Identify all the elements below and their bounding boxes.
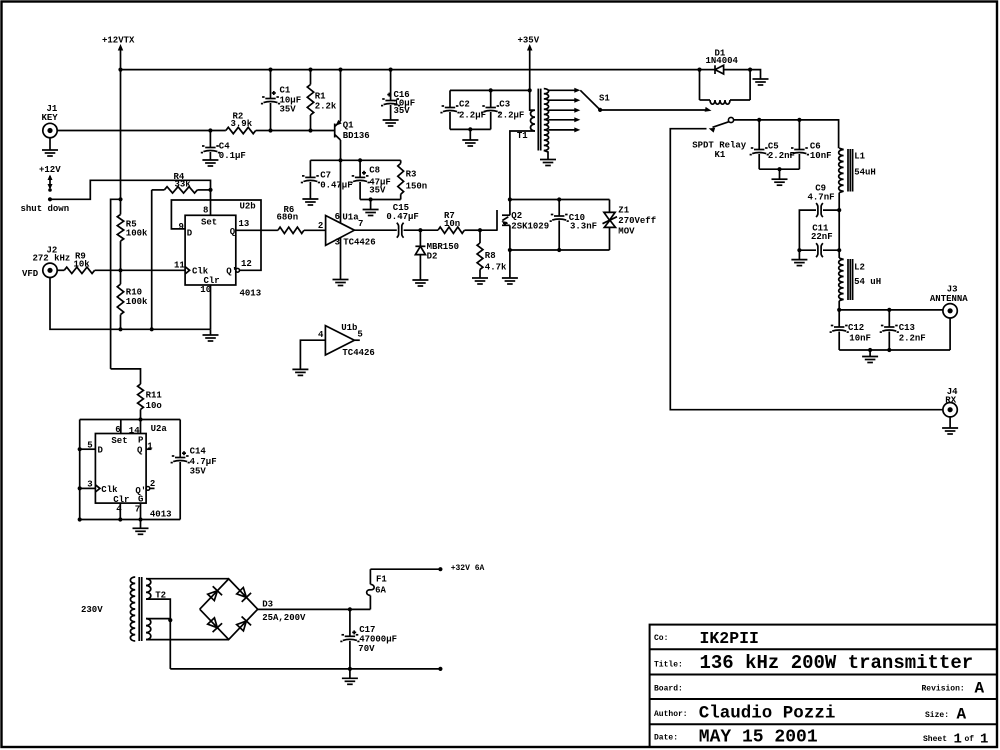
wire U2a pin14 stub — [140, 420, 142, 434]
svg-text:U2b: U2b — [240, 202, 256, 212]
svg-text:Clk: Clk — [101, 485, 118, 495]
fuse F1 6A — [367, 569, 388, 609]
capacitor C3 2.2uF — [481, 90, 524, 129]
ground U2a — [133, 528, 149, 534]
connector J1 KEY — [42, 104, 59, 138]
ground Q2 — [502, 278, 518, 284]
wire U2a left D Clk loop — [78, 420, 96, 520]
capacitor C9 4.7nF — [799, 183, 839, 250]
ground C4 — [202, 160, 218, 166]
ground C2/C3 — [462, 140, 478, 146]
capacitor C17 47000uF 70V — [340, 609, 397, 669]
ground C5/C6 — [772, 179, 788, 185]
svg-text:P: P — [138, 435, 144, 445]
svg-text:D: D — [187, 228, 193, 238]
wire drain node to C10 Z1 — [510, 197, 610, 201]
svg-text:3: 3 — [335, 238, 340, 248]
svg-text:L1: L1 — [854, 152, 865, 162]
ground U1a — [333, 280, 349, 286]
title block frame — [650, 625, 997, 747]
svg-text:C13: C13 — [899, 323, 915, 333]
wire L2 to J3 — [837, 301, 943, 312]
connector J2 272 kHz VFD — [22, 246, 70, 280]
svg-text:C7: C7 — [320, 170, 331, 180]
svg-text:C4: C4 — [219, 141, 230, 151]
relay coil K1 — [700, 70, 751, 105]
svg-text:R1: R1 — [315, 92, 326, 102]
svg-text:Author:: Author: — [654, 710, 688, 719]
wire U2a pin1 stub — [146, 448, 151, 450]
title block text Co — [654, 629, 759, 648]
svg-text:SPDT Relay: SPDT Relay — [692, 141, 747, 151]
svg-text:4.7µF: 4.7µF — [190, 457, 217, 467]
inductor L2 54uH — [839, 258, 881, 301]
resistor R2 3.9k — [226, 112, 271, 134]
wire +12VTX drop to R5 and U2a branch — [111, 70, 123, 369]
svg-text:MOV: MOV — [618, 226, 635, 236]
transistor Q2 2SK1029 — [497, 210, 549, 232]
svg-text:C1: C1 — [280, 86, 291, 96]
svg-text:Z1: Z1 — [618, 205, 629, 215]
wire gate node to Q2 — [480, 229, 497, 231]
svg-text:230V: 230V — [81, 605, 103, 615]
wire U1a pin3 to ground — [340, 238, 342, 279]
ground C12/C13 — [862, 357, 878, 363]
svg-text:6: 6 — [115, 425, 120, 435]
svg-text:2.2k: 2.2k — [315, 102, 337, 112]
wire U2a bottom rail — [78, 503, 181, 528]
switch S1 selector arm — [580, 90, 610, 112]
wire Q1 collector node rail — [310, 158, 400, 162]
svg-text:K1: K1 — [715, 150, 726, 160]
wire C10 Z1 bottom rail — [510, 248, 610, 252]
svg-text:680n: 680n — [277, 213, 299, 223]
resistor R9 10k — [57, 251, 122, 273]
svg-text:R8: R8 — [485, 251, 496, 261]
svg-text:Clr: Clr — [113, 495, 129, 505]
svg-text:2.2µF: 2.2µF — [497, 110, 524, 120]
svg-text:3.3nF: 3.3nF — [570, 222, 597, 232]
svg-text:A: A — [957, 706, 967, 724]
connector J4 RX — [943, 387, 958, 417]
svg-text:R10: R10 — [126, 287, 142, 297]
ground C16 — [383, 120, 399, 126]
svg-text:Revision:: Revision: — [922, 685, 965, 694]
wire J2 shield to ground rail — [50, 278, 211, 332]
svg-text:Q2: Q2 — [511, 211, 522, 221]
capacitor C14 4.7uF 35V — [171, 420, 217, 520]
wire R4 to ground rail — [151, 190, 153, 329]
capacitor C4 0.1uF — [201, 128, 246, 161]
connector J3 ANTENNA — [930, 284, 968, 318]
svg-text:0.47µF: 0.47µF — [386, 212, 418, 222]
resistor R8 4.7k — [477, 230, 507, 277]
IC U2a 4013 flip-flop — [95, 424, 171, 520]
transformer T2 primary — [130, 577, 135, 641]
wire Q2 drain — [508, 197, 512, 215]
capacitor C5 2.2nF — [750, 118, 795, 169]
T2 core — [139, 577, 142, 641]
ground C9/C11 — [791, 260, 807, 266]
wire bridge output to F1 and C17 — [258, 607, 371, 611]
svg-text:MAY 15 2001: MAY 15 2001 — [699, 728, 818, 748]
svg-text:2SK1029: 2SK1029 — [511, 222, 549, 232]
svg-text:10nF: 10nF — [810, 151, 832, 161]
svg-text:13: 13 — [239, 219, 250, 229]
svg-text:270Veff: 270Veff — [618, 216, 656, 226]
wire shut down to Set node — [48, 180, 211, 201]
svg-text:136 kHz 200W transmitter: 136 kHz 200W transmitter — [700, 652, 974, 674]
svg-text:7: 7 — [135, 505, 140, 515]
svg-text:11: 11 — [174, 261, 185, 271]
svg-text:Q1: Q1 — [343, 121, 354, 131]
wire +12VTX rail — [118, 68, 699, 72]
svg-text:C2: C2 — [459, 100, 470, 110]
svg-text:1: 1 — [954, 732, 962, 748]
svg-text:1: 1 — [147, 442, 153, 452]
svg-text:G: G — [138, 494, 143, 504]
capacitor C12 10nF — [830, 310, 871, 350]
svg-text:T1: T1 — [517, 131, 528, 141]
ground J1 — [42, 138, 58, 156]
svg-text:2.2nF: 2.2nF — [768, 151, 795, 161]
varistor Z1 270Veff MOV — [603, 200, 657, 251]
wire U2b Set pin 8 — [210, 190, 212, 215]
relay K1 SPDT contacts — [692, 117, 747, 160]
svg-text:54uH: 54uH — [854, 168, 876, 178]
capacitor C1 10uF 35V — [261, 68, 301, 133]
svg-text:35V: 35V — [394, 106, 411, 116]
wire S1 to relay TX contact — [600, 107, 711, 112]
capacitor C15 0.47uF — [386, 203, 418, 238]
svg-text:272 kHz: 272 kHz — [33, 254, 71, 264]
node +12V (shut down input) — [39, 165, 61, 192]
svg-text:BD136: BD136 — [343, 131, 370, 141]
svg-text:Q: Q — [230, 227, 236, 237]
svg-text:1: 1 — [980, 732, 988, 748]
node 230V label — [81, 605, 103, 615]
wire U2b feedback Q' to D — [171, 200, 261, 270]
wire T2 center taps join — [146, 599, 172, 622]
wire relay pole to antenna tank — [734, 120, 839, 148]
svg-text:12: 12 — [241, 259, 252, 269]
svg-text:D: D — [98, 445, 104, 455]
svg-text:35V: 35V — [190, 467, 207, 477]
wire supply ground rail — [170, 667, 442, 678]
svg-text:U1b: U1b — [341, 323, 357, 333]
wire L1 to L2 — [837, 193, 841, 258]
ground U2b rail — [203, 329, 219, 341]
node shut down — [21, 204, 70, 214]
svg-text:D3: D3 — [262, 600, 273, 610]
svg-text:Size:: Size: — [925, 711, 949, 720]
svg-text:Co:: Co: — [654, 634, 668, 643]
svg-text:shut down: shut down — [21, 204, 70, 214]
svg-text:+35V: +35V — [518, 36, 540, 46]
svg-text:C5: C5 — [768, 142, 779, 152]
svg-text:VFD: VFD — [22, 269, 39, 279]
title block text Title — [654, 652, 973, 674]
wire T1 secondary ground — [540, 151, 556, 166]
capacitor C6 10nF — [790, 118, 832, 169]
svg-text:Clk: Clk — [192, 267, 209, 277]
title block text Board Revision — [654, 680, 985, 698]
svg-text:10o: 10o — [146, 401, 162, 411]
resistor R1 2.2k — [307, 68, 337, 133]
wire KEY node to Q1 base — [271, 130, 335, 132]
svg-text:ANTENNA: ANTENNA — [930, 294, 968, 304]
svg-text:A: A — [975, 680, 985, 698]
wire T2 top to bridge — [146, 578, 229, 580]
U2a pin labels — [87, 425, 155, 514]
svg-text:4: 4 — [116, 505, 122, 515]
resistor R3 150 ohm — [398, 160, 427, 199]
svg-text:4013: 4013 — [240, 289, 262, 299]
IC U1a TC4426 driver — [326, 213, 376, 248]
svg-text:54 uH: 54 uH — [854, 277, 881, 287]
transformer T1 core — [538, 89, 540, 151]
wire C5 C6 bottom — [759, 167, 799, 179]
wire T2 bottom to bridge — [146, 639, 229, 641]
ground D2 — [412, 280, 428, 286]
resistor R10 100k — [117, 270, 148, 329]
svg-text:4: 4 — [318, 330, 324, 340]
ground R8 — [472, 278, 488, 284]
svg-text:Claudio Pozzi: Claudio Pozzi — [699, 704, 836, 724]
svg-text:IK2PII: IK2PII — [700, 629, 759, 648]
svg-text:R11: R11 — [146, 391, 163, 401]
svg-text:0.1µF: 0.1µF — [219, 151, 246, 161]
svg-text:C8: C8 — [369, 166, 380, 176]
svg-text:U2a: U2a — [151, 424, 168, 434]
svg-text:TC4426: TC4426 — [343, 238, 375, 248]
svg-text:TC4426: TC4426 — [342, 348, 374, 358]
wire RX contact to J4 — [670, 129, 943, 410]
svg-text:S1: S1 — [599, 94, 610, 104]
svg-text:Set: Set — [201, 218, 217, 228]
resistor R4 33k — [152, 172, 213, 193]
svg-text:35V: 35V — [280, 105, 297, 115]
wire C12 C13 bottom to J3 — [839, 318, 950, 356]
svg-text:10nF: 10nF — [849, 334, 871, 344]
T1 secondary taps with arrows — [548, 88, 580, 133]
U1a pin labels — [318, 212, 364, 248]
capacitor C13 2.2nF — [880, 310, 926, 350]
capacitor C16 10uF 35V — [381, 68, 415, 120]
IC U2b 4013 flip-flop — [185, 202, 261, 299]
title block text Author Size — [654, 704, 967, 724]
svg-text:F1: F1 — [376, 575, 387, 585]
resistor R7 10 ohm — [438, 211, 482, 234]
svg-text:14: 14 — [129, 426, 140, 436]
svg-text:+12VTX: +12VTX — [102, 36, 135, 46]
svg-text:C3: C3 — [499, 100, 510, 110]
svg-text:MBR150: MBR150 — [427, 242, 459, 252]
svg-text:100k: 100k — [126, 297, 148, 307]
svg-text:7: 7 — [358, 219, 363, 229]
svg-text:KEY: KEY — [42, 113, 59, 123]
wire KEY line J1 to R2 — [57, 130, 226, 132]
svg-text:C14: C14 — [190, 447, 207, 457]
svg-text:4.7k: 4.7k — [485, 263, 507, 273]
wire U2a pin6 stub — [120, 420, 122, 434]
transformer T2 secondary windings — [146, 579, 166, 640]
svg-text:R3: R3 — [406, 170, 417, 180]
svg-text:Title:: Title: — [654, 661, 683, 670]
IC U1b TC4426 unused — [318, 323, 375, 358]
U2b pin labels — [174, 206, 252, 296]
wire rail end to ground — [750, 70, 760, 79]
svg-text:4013: 4013 — [150, 510, 172, 520]
svg-text:+32V 6A: +32V 6A — [451, 564, 485, 573]
node +35V supply — [518, 36, 540, 91]
wire clock line to U2b pin 11 — [121, 269, 186, 271]
svg-text:L2: L2 — [854, 263, 865, 273]
wire U2a supply node — [80, 417, 181, 421]
svg-text:70V: 70V — [358, 644, 375, 654]
ground J4 — [942, 417, 958, 434]
wire C15 to R7 — [404, 228, 438, 232]
svg-text:25A,200V: 25A,200V — [262, 613, 306, 623]
transformer T1 secondary winding — [544, 89, 549, 151]
svg-text:9: 9 — [179, 222, 184, 232]
title block text Date Sheet — [654, 728, 988, 748]
svg-text:C12: C12 — [848, 323, 864, 333]
svg-text:6A: 6A — [375, 586, 386, 596]
svg-text:1N4004: 1N4004 — [706, 56, 739, 66]
wire U2b Clr pin 10 to ground — [210, 285, 212, 329]
diode D1 1N4004 — [697, 49, 752, 75]
svg-text:10: 10 — [200, 285, 211, 295]
svg-text:4.7nF: 4.7nF — [808, 193, 835, 203]
resistor R6 680 ohm — [277, 205, 326, 234]
svg-text:J3: J3 — [947, 284, 958, 294]
wire Q2 source to ground — [508, 225, 512, 277]
svg-text:0.47µF: 0.47µF — [320, 180, 352, 190]
svg-text:35V: 35V — [369, 186, 386, 196]
svg-text:5: 5 — [357, 330, 362, 340]
transformer T1 primary winding — [510, 110, 535, 199]
svg-text:Board:: Board: — [654, 685, 683, 694]
svg-text:22nF: 22nF — [811, 232, 833, 242]
ground C8/R3 — [363, 210, 379, 216]
ground C7 — [302, 199, 318, 205]
svg-text:Sheet: Sheet — [923, 735, 947, 744]
ground C17 — [342, 678, 358, 684]
wire C8 R3 bottom rail — [360, 197, 401, 209]
svg-text:150n: 150n — [406, 182, 428, 192]
svg-text:8: 8 — [203, 206, 208, 216]
bridge rectifier D3 25A,200V — [200, 579, 306, 640]
wire U2a pin2 stub — [150, 487, 155, 489]
wire +35V to C2 C3 and T1 primary — [450, 88, 534, 110]
wire U1a output to C15 — [354, 229, 396, 231]
svg-text:C6: C6 — [810, 142, 821, 152]
L2 core — [848, 259, 853, 300]
svg-text:U1a: U1a — [342, 213, 359, 223]
inductor L1 54uH — [839, 148, 876, 192]
node +32V 6A output — [370, 564, 484, 573]
wire U1b input to ground — [300, 340, 325, 369]
wire C2 C3 bottom — [450, 127, 491, 139]
L1 core — [848, 149, 853, 192]
node +12VTX supply — [102, 36, 135, 70]
svg-text:6: 6 — [335, 212, 340, 222]
svg-text:Date:: Date: — [654, 734, 678, 743]
capacitor C2 2.2uF — [440, 90, 486, 129]
svg-text:D2: D2 — [427, 252, 438, 262]
capacitor C11 22nF — [797, 224, 839, 260]
transistor Q1 BD136 (PNP) — [335, 68, 370, 161]
capacitor C8 47uF 35V — [351, 160, 391, 199]
wire center tap to ground rail — [169, 620, 171, 669]
svg-text:of: of — [965, 735, 975, 744]
svg-text:+12V: +12V — [39, 165, 61, 175]
resistor R5 100k — [117, 215, 148, 271]
diode D2 MBR150 — [415, 230, 459, 279]
svg-text:2: 2 — [318, 221, 323, 231]
svg-text:Set: Set — [111, 436, 127, 446]
capacitor C10 3.3nF — [550, 200, 597, 251]
ground U1b — [292, 369, 308, 375]
svg-text:100k: 100k — [126, 229, 148, 239]
resistor R11 10 ohm — [111, 369, 163, 420]
ground relay supply — [753, 79, 769, 85]
capacitor C7 0.47uF — [301, 160, 353, 198]
svg-text:2.2nF: 2.2nF — [899, 334, 926, 344]
wire U2b Q pin13 to R6 — [236, 229, 278, 231]
svg-text:Q: Q — [137, 445, 143, 455]
wire U1a pin6 supply — [340, 160, 342, 223]
